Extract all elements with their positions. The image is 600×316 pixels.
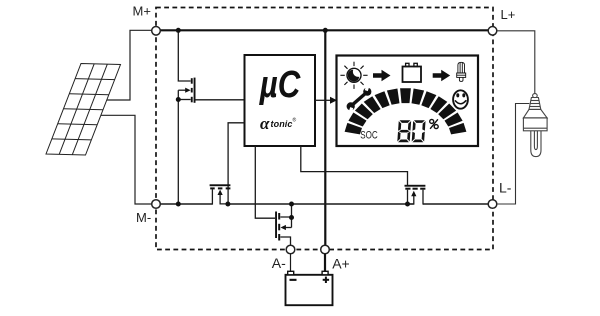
- digit 8: [397, 120, 411, 142]
- wire Q4 drain drop: [422, 190, 424, 205]
- node battery line junction: [323, 28, 328, 33]
- svg-text:®: ®: [293, 117, 297, 124]
- wire Q2 bulk arrow: [220, 192, 228, 204]
- transistor Q3: [275, 212, 280, 241]
- battery minus mark: [290, 279, 297, 281]
- wire battery positive line (thick vertical): [324, 30, 326, 245]
- terminal A-: [286, 245, 295, 254]
- wire lamp to L-: [497, 104, 530, 205]
- svg-text:L-: L-: [499, 180, 512, 196]
- terminal M-: [152, 200, 161, 209]
- icon arrow 2: [433, 70, 451, 81]
- node Q3 rail junction: [289, 202, 294, 207]
- wire Q2 source drop: [211, 189, 213, 204]
- percent label: [430, 119, 439, 129]
- controller enclosure (dashed border): [156, 8, 493, 250]
- wire bottom rail right section (Q4 drain to L-): [423, 203, 488, 205]
- wire L+ to lamp: [497, 31, 535, 94]
- icon sun: [340, 62, 367, 89]
- wire Q1 gate to uC: [196, 99, 245, 101]
- wire A- to battery: [290, 254, 292, 271]
- gauge arc segments: [345, 123, 362, 134]
- node M+ junction: [176, 28, 181, 33]
- terminal L+: [488, 27, 497, 36]
- wire PV plus to M+: [107, 30, 152, 100]
- svg-text:µC: µC: [259, 64, 301, 106]
- op-amp/microcontroller U1 box: [245, 55, 316, 146]
- transistor Q4 (load MOSFET): [405, 185, 426, 190]
- svg-text:M-: M-: [136, 210, 151, 225]
- node Q4 source junction: [405, 202, 410, 207]
- wire M+ rail (top, thick): [160, 29, 488, 31]
- svg-text:tonic: tonic: [271, 119, 293, 129]
- digit 0: [412, 120, 426, 142]
- icon smiley: [453, 90, 468, 108]
- svg-text:A+: A+: [332, 256, 350, 272]
- wire bottom rail middle section (Q2 drain to Q4 bulk): [228, 203, 414, 205]
- wire Q3 bulk arrow: [291, 217, 293, 228]
- battery plus mark: [323, 279, 329, 281]
- transistor Q1 (solar input MOSFET): [191, 78, 196, 103]
- wire uC to Q3 gate: [255, 146, 275, 218]
- svg-text:A-: A-: [272, 255, 286, 271]
- node Q1 source junction: [176, 97, 181, 102]
- icon wrench: [347, 84, 372, 113]
- terminal L-: [488, 200, 497, 209]
- icon CFL lamp: [457, 62, 466, 81]
- wire Q1 bulk arrow: [178, 89, 186, 91]
- node Q2 drain junction: [225, 202, 230, 207]
- transistor Q2 (charge MOSFET): [210, 184, 231, 189]
- wire bottom rail left section (M- to Q2 source): [160, 203, 212, 205]
- icon battery: [403, 67, 422, 83]
- svg-text:L+: L+: [501, 7, 516, 22]
- svg-text:α: α: [260, 114, 270, 133]
- svg-text:SOC: SOC: [360, 130, 378, 142]
- wire Q1 source: [178, 99, 190, 101]
- svg-text:M+: M+: [133, 4, 151, 19]
- node Q3 drain junction: [289, 215, 294, 220]
- wire Q4 source drop: [407, 190, 409, 205]
- terminal M+: [152, 27, 161, 36]
- node bottom rail M- junction: [176, 202, 181, 207]
- wire PV minus to M-: [101, 115, 152, 204]
- LCD display box: [337, 56, 479, 147]
- wire Q3 drain from rail: [280, 204, 291, 217]
- wire uC to Q4 gate: [301, 146, 408, 185]
- solar module PV: [46, 64, 121, 156]
- terminal A+: [321, 245, 330, 254]
- wire Q1 source/bulk down to bottom rail: [177, 90, 179, 204]
- wire A+ to battery (thick): [324, 254, 326, 271]
- wire M+ junction to Q1 drain: [178, 30, 190, 81]
- wire uC to Q2 gate: [228, 123, 244, 204]
- wire Q3 source to A-: [280, 237, 290, 245]
- icon arrow 1: [373, 70, 391, 81]
- lamp E1 (CFL bulb): [523, 94, 547, 157]
- wire Q4 bulk arrow: [408, 195, 414, 205]
- battery B1: [286, 275, 333, 305]
- wire uC to display arrow: [315, 99, 331, 101]
